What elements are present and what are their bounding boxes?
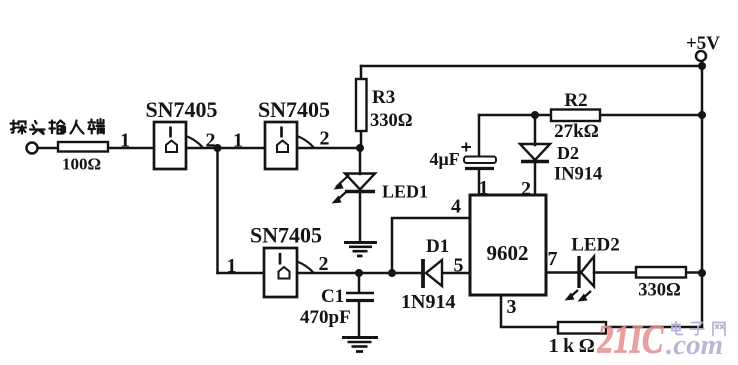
- char ru: [71, 121, 84, 134]
- svg-text:+5V: +5V: [686, 33, 720, 54]
- svg-text:330Ω: 330Ω: [370, 111, 413, 131]
- svg-text:1N914: 1N914: [401, 291, 455, 313]
- wire node B2 to C1: [358, 273, 361, 292]
- svg-text:2: 2: [206, 130, 216, 152]
- wire node to LED1: [359, 148, 362, 174]
- watermark dianzi wang chars: [672, 322, 725, 336]
- wire D1 to pin5: [443, 272, 470, 275]
- svg-text:C1: C1: [321, 286, 344, 307]
- svg-text:27kΩ: 27kΩ: [554, 121, 599, 142]
- svg-text:9602: 9602: [487, 241, 529, 265]
- svg-text:SN7405: SN7405: [145, 97, 217, 122]
- ground under C1: [342, 338, 378, 352]
- svg-text:330Ω: 330Ω: [638, 281, 681, 301]
- resistor 100ohm: [58, 142, 108, 152]
- wire 115 rail cap to R2 to right rail: [479, 114, 702, 117]
- wire C4uF top stem: [478, 115, 481, 157]
- wire 100ohm to gate1: [108, 147, 154, 150]
- char duan: [89, 119, 105, 134]
- LED2: [565, 256, 595, 302]
- wire gate1 output to gate2 input: [186, 147, 265, 150]
- wire LED1 to ground: [359, 191, 362, 241]
- IC 9602: [470, 195, 546, 295]
- inverter gate U1 SN7405: [154, 122, 203, 169]
- svg-text:LED2: LED2: [571, 235, 620, 256]
- svg-text:1: 1: [120, 130, 130, 152]
- svg-text:SN7405: SN7405: [250, 223, 322, 248]
- svg-text:2: 2: [521, 178, 531, 200]
- junction node 330ohm rail: [698, 269, 706, 277]
- svg-text:1kΩ: 1kΩ: [549, 335, 600, 357]
- svg-text:SN7405: SN7405: [258, 97, 330, 122]
- svg-text:2: 2: [319, 253, 329, 275]
- inverter gate U3 SN7405: [264, 248, 314, 297]
- svg-text:7: 7: [548, 248, 558, 270]
- wire LED2 to 330ohm: [594, 271, 636, 274]
- diode D1: [423, 259, 442, 288]
- svg-text:R3: R3: [372, 87, 395, 108]
- svg-text:D2: D2: [557, 143, 579, 163]
- inverter gate U2 SN7405: [265, 122, 314, 169]
- LED1: [332, 174, 376, 204]
- svg-text:1: 1: [479, 177, 489, 199]
- svg-text:D1: D1: [426, 236, 449, 257]
- svg-text:IN914: IN914: [554, 165, 602, 185]
- junction node R3 LED1: [356, 144, 364, 152]
- +5V terminal circle: [696, 51, 706, 61]
- wire pin3 down and right to 1k: [501, 295, 558, 327]
- wire C4uF to pin1: [478, 170, 481, 195]
- capacitor C1: [346, 293, 374, 301]
- wire D2 to pin2: [534, 162, 537, 195]
- char zi: [691, 323, 705, 335]
- char shu: [50, 121, 66, 134]
- svg-text:1: 1: [233, 130, 243, 152]
- svg-text:3: 3: [507, 296, 517, 318]
- svg-text:21IC: 21IC: [597, 317, 664, 361]
- ground under LED1: [344, 243, 377, 257]
- char tou: [30, 121, 45, 134]
- junction node R2 rail: [698, 111, 706, 119]
- svg-text:5: 5: [454, 255, 464, 277]
- wire R3 top stem: [360, 66, 363, 79]
- resistor 1k: [558, 322, 606, 334]
- char tan: [11, 121, 27, 134]
- junction node +5V rail top: [698, 62, 706, 70]
- wire node A down to gate3 input: [216, 148, 219, 273]
- resistor 330ohm: [636, 267, 686, 278]
- wire node B up to pin4: [392, 218, 470, 273]
- watermark 21IC.com dianziwang: [597, 317, 725, 361]
- input terminal circle: [27, 143, 38, 154]
- wire D2 top stem: [534, 115, 537, 145]
- wire input terminal to 100ohm: [38, 147, 58, 150]
- wire gate3 output to D1: [297, 272, 422, 275]
- capacitor 4uF: [462, 143, 497, 169]
- svg-text:4: 4: [451, 196, 461, 218]
- wire C1 to ground: [358, 301, 361, 336]
- junction node C1: [355, 269, 363, 277]
- junction node A gate1 output: [214, 144, 222, 152]
- svg-text:100Ω: 100Ω: [62, 155, 101, 174]
- svg-text:470pF: 470pF: [300, 307, 351, 328]
- junction node pin4 tap: [388, 269, 396, 277]
- junction node D2 top: [531, 111, 539, 119]
- wire 1k to rail: [606, 326, 702, 329]
- svg-text:1: 1: [227, 255, 237, 277]
- wire pin7 to LED2: [546, 271, 578, 274]
- diode D2: [520, 144, 550, 162]
- svg-text:.com: .com: [666, 329, 723, 361]
- wire R3 bottom to node: [360, 131, 363, 148]
- svg-text:4μF: 4μF: [430, 149, 460, 169]
- wire top +5V rail: [361, 65, 702, 68]
- svg-text:LED1: LED1: [382, 182, 428, 202]
- resistor R3: [356, 79, 367, 131]
- wire into gate3: [218, 272, 265, 275]
- char wang: [713, 323, 725, 336]
- wire gate2 output to R3/LED1 node: [297, 147, 360, 150]
- wire right +5V rail vertical: [701, 61, 704, 327]
- svg-text:2: 2: [320, 128, 330, 150]
- wire 330ohm to rail: [686, 271, 702, 274]
- svg-text:R2: R2: [564, 90, 587, 111]
- resistor R2: [551, 110, 600, 122]
- char dian: [672, 322, 683, 335]
- label CJK probe input 探头输入端 (drawn strokes): [11, 119, 105, 134]
